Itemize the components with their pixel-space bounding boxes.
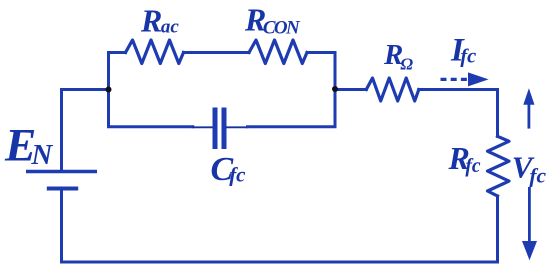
wire right vertical above R_fc	[496, 90, 499, 137]
resistor R_CON	[249, 40, 307, 64]
svg-text:Ifc: Ifc	[450, 33, 476, 69]
svg-text:RCON: RCON	[244, 2, 301, 39]
wire node B to R_Omega	[335, 88, 366, 91]
svg-text:Rfc: Rfc	[448, 140, 481, 177]
capacitor C_fc left plate	[213, 108, 218, 150]
capacitor C_fc right plate	[222, 108, 227, 150]
wire bottom rail left segment	[109, 125, 193, 128]
voltage arrow V_fc down shaft	[528, 187, 531, 243]
resistor R_Omega	[366, 78, 419, 101]
svg-text:EN: EN	[4, 120, 53, 172]
battery E_N short plate	[47, 187, 78, 191]
resistor R_fc	[488, 136, 510, 196]
node A junction dot	[106, 87, 112, 93]
wire top rail middle segment	[184, 51, 250, 54]
voltage arrow V_fc down head	[522, 241, 537, 260]
wire bottom rail right segment	[248, 125, 336, 128]
wire battery bottom	[60, 190, 63, 262]
wire top rail left segment	[109, 51, 126, 54]
battery E_N long plate	[26, 170, 97, 174]
voltage arrow V_fc up shaft	[528, 101, 531, 129]
wire right rail of parallel block	[334, 53, 337, 127]
svg-text:RΩ: RΩ	[383, 39, 413, 74]
wire left rail of parallel block	[107, 53, 110, 127]
wire battery top to node A	[62, 90, 109, 171]
node B junction dot	[332, 86, 338, 92]
wire R_Omega to right vertical	[419, 88, 498, 91]
svg-text:Vfc: Vfc	[512, 149, 547, 187]
wire right vertical below R_fc	[496, 196, 499, 262]
svg-text:Rac: Rac	[140, 3, 179, 39]
svg-text:Cfc: Cfc	[211, 151, 247, 188]
wire thin stub to capacitor left plate	[193, 126, 213, 128]
wire top rail right segment	[307, 51, 335, 54]
resistor R_ac	[126, 40, 184, 64]
wire bottom return	[62, 261, 498, 264]
current arrow I_fc head	[468, 72, 489, 86]
wire thin stub from capacitor right plate	[227, 126, 248, 128]
current arrow I_fc dashed shaft	[441, 78, 469, 81]
voltage arrow V_fc up head	[523, 88, 534, 105]
